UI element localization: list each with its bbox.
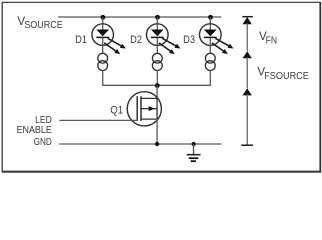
wire anode D2 (156, 17, 158, 30)
annotation: VFN arrow (points up) (243, 17, 252, 51)
current source string 2 (double circle) (152, 53, 162, 70)
wire VSOURCE rail (58, 16, 221, 18)
wire LED ENABLE to Q1 gate (59, 119, 137, 121)
wire cathode D3 to current source (209, 37, 211, 54)
LED D1 (92, 24, 126, 54)
wire current source 1 to bus (102, 70, 104, 85)
wire cathode D2 to current source (156, 37, 158, 54)
ground symbol (187, 144, 201, 161)
svg-text:FN: FN (266, 36, 277, 47)
transistor Q1 (N-channel MOSFET) (127, 92, 161, 126)
svg-text:ENABLE: ENABLE (17, 125, 53, 136)
svg-text:D3: D3 (183, 34, 195, 46)
wire LED-string bus (102, 84, 211, 86)
wire cathode D1 to current source (102, 37, 104, 54)
svg-text:SOURCE: SOURCE (24, 20, 63, 31)
annotation: bottom reference tick (GND level) (241, 144, 253, 146)
wire Q1 source to GND (156, 119, 158, 144)
wire current source 2 to bus (156, 70, 158, 85)
node: junction dot ground tap (192, 142, 196, 146)
LED D3 (200, 24, 234, 54)
annotation: lower arrow to GND reference (points up) (243, 88, 252, 145)
wire Q1 drain (156, 85, 158, 98)
svg-text:GND: GND (34, 137, 52, 148)
node: junction dot string 1 on VSOURCE rail (101, 15, 106, 20)
node: junction dot string 2 on VSOURCE rail (155, 15, 160, 20)
svg-text:D1: D1 (75, 34, 87, 46)
wire current source 3 to bus (209, 70, 211, 85)
wire anode D3 (209, 17, 211, 30)
wire GND (59, 143, 221, 145)
annotation: top reference tick (VSOURCE level) (242, 16, 252, 18)
node: junction dot string 3 on VSOURCE rail (208, 15, 213, 20)
label LED ENABLE (17, 115, 53, 136)
label VFN (259, 30, 277, 47)
svg-text:Q1: Q1 (110, 105, 123, 117)
current source string 3 (double circle) (205, 53, 215, 70)
node: junction dot Q1 source on GND wire (155, 142, 159, 146)
svg-text:FSOURCE: FSOURCE (264, 71, 309, 82)
label VFSOURCE (257, 65, 309, 82)
current source string 1 (double circle) (98, 53, 108, 70)
svg-text:D2: D2 (130, 34, 142, 46)
annotation: VFSOURCE arrow (points up) (243, 51, 252, 88)
wire anode D1 (102, 17, 104, 30)
LED D2 (147, 24, 181, 54)
node: junction dot bus to Q1 drain (155, 83, 160, 88)
